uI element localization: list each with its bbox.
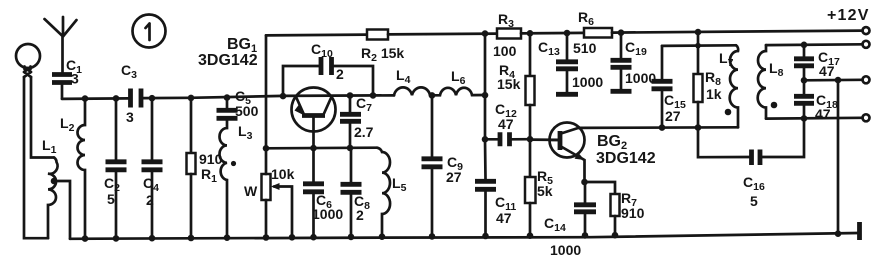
capacitor C11 xyxy=(475,139,516,236)
capacitor C5 xyxy=(217,88,259,119)
node BG2 base xyxy=(527,136,534,143)
wire BG2 collector line xyxy=(579,126,739,129)
resistor R7 xyxy=(585,182,645,236)
svg-text:500: 500 xyxy=(235,103,259,119)
node C7 bottom / C8 top xyxy=(347,145,354,152)
capacitor C13 xyxy=(538,33,603,92)
node L2 top xyxy=(82,95,89,102)
node L8 phasing dot xyxy=(771,102,778,109)
node C2 top xyxy=(113,95,120,102)
resistor R5 xyxy=(525,139,553,236)
node rail wiper xyxy=(289,234,296,241)
wire loop antenna left lead to bottom xyxy=(24,77,48,238)
node rail C9 xyxy=(429,233,436,240)
node BG1 emitter / C10 left xyxy=(280,93,287,100)
transistor BG1 xyxy=(292,88,336,149)
node L1 tap xyxy=(51,178,58,185)
node rail R1 xyxy=(188,235,195,242)
resistor R1 xyxy=(187,98,223,238)
capacitor C17 xyxy=(794,45,840,81)
node ground drop top xyxy=(835,77,842,84)
inductor L8 xyxy=(758,45,784,119)
node C17 bottom / C18 top xyxy=(801,77,808,84)
node rail R3 left xyxy=(482,30,489,37)
node rail C2 xyxy=(113,235,120,242)
capacitor C3 xyxy=(121,62,141,125)
node R1 top xyxy=(188,95,195,102)
node L3 phasing dot xyxy=(231,161,236,166)
capacitor C2 xyxy=(104,98,127,238)
wire tank top line right segment xyxy=(766,43,863,46)
whip antenna xyxy=(45,17,77,72)
svg-text:2.7: 2.7 xyxy=(354,124,374,140)
wire base to BG2 xyxy=(530,138,560,141)
terminal +12V xyxy=(827,7,870,34)
capacitor C6 xyxy=(303,148,343,237)
inductor L7 xyxy=(719,45,738,127)
svg-text:47: 47 xyxy=(819,63,835,79)
svg-text:1k: 1k xyxy=(706,86,722,102)
node C17 top xyxy=(801,42,808,49)
node BG1 base xyxy=(310,145,317,152)
terminal 3 xyxy=(863,76,870,83)
resistor R2 xyxy=(266,30,497,65)
resistor R4 xyxy=(497,33,535,139)
capacitor C16 xyxy=(743,118,804,209)
node rail R8 top xyxy=(695,29,702,36)
svg-text:3: 3 xyxy=(71,71,79,87)
inductor L6 xyxy=(432,68,485,95)
node rail C13 top xyxy=(564,30,571,37)
svg-text:2: 2 xyxy=(146,192,154,208)
wire L1 tap to ground rail start xyxy=(54,181,70,239)
wire bottom ground rail xyxy=(70,233,858,239)
node rail ground drop xyxy=(835,230,842,237)
wire L8 bottom to terminal 4 xyxy=(766,116,863,119)
svg-text:510: 510 xyxy=(573,40,597,56)
node rail L5 xyxy=(379,233,386,240)
svg-text:2: 2 xyxy=(356,207,364,223)
resistor R8 xyxy=(694,32,722,127)
svg-text:3DG142: 3DG142 xyxy=(596,150,656,167)
node rail C14 xyxy=(582,232,589,239)
svg-text:W: W xyxy=(244,183,258,199)
svg-text:910: 910 xyxy=(621,205,645,221)
node rail L2 xyxy=(82,235,89,242)
wire main tank node (top horizontal) xyxy=(62,97,128,100)
node rail C4 xyxy=(149,235,156,242)
node C5 top xyxy=(224,94,231,101)
node C15 bottom xyxy=(659,124,666,131)
node L7 phasing dot xyxy=(725,109,732,116)
node R8 crossing tank line xyxy=(695,43,701,49)
potentiometer W 10k xyxy=(244,148,295,237)
node riser at C12 xyxy=(482,136,489,143)
wire divider mid to terminal 3 xyxy=(804,78,863,81)
inductor L2 xyxy=(60,99,85,239)
node rail R5 xyxy=(527,232,534,239)
node C10 right at collector line xyxy=(370,92,377,99)
svg-text:2: 2 xyxy=(336,66,344,82)
node rail R3 right xyxy=(527,30,534,37)
wire C12/C11 riser from rail xyxy=(484,34,487,140)
node rail C8 xyxy=(348,234,355,241)
wire node after C3 to C12 riser xyxy=(144,95,395,98)
capacitor C10 xyxy=(283,41,373,96)
node R8 bottom xyxy=(695,124,702,131)
svg-text:+12V: +12V xyxy=(827,7,870,24)
resistor R6 xyxy=(573,9,863,56)
svg-text:3DG142: 3DG142 xyxy=(198,52,258,69)
capacitor C18 xyxy=(794,80,838,122)
capacitor C12 xyxy=(485,101,530,146)
transistor BG1 label xyxy=(198,36,258,69)
svg-text:5: 5 xyxy=(750,193,758,209)
wire tank top line left segment xyxy=(662,44,736,47)
svg-text:3: 3 xyxy=(126,109,134,125)
wire ground drop xyxy=(837,80,840,235)
capacitor C15 xyxy=(652,46,686,128)
node rail R7 xyxy=(612,232,619,239)
svg-text:15k: 15k xyxy=(497,76,521,92)
capacitor C14 xyxy=(544,182,596,258)
terminal 4 xyxy=(863,114,870,121)
wire C16 drop and link xyxy=(698,128,750,158)
capacitor C1 xyxy=(52,57,82,99)
svg-text:27: 27 xyxy=(446,169,462,185)
inductor L1 xyxy=(42,137,58,238)
svg-text:27: 27 xyxy=(665,108,681,124)
node emitter xyxy=(581,179,588,186)
node rail C6 xyxy=(310,234,317,241)
inductor L5 xyxy=(377,148,407,237)
node rail C11 xyxy=(482,233,489,240)
wire loop antenna right lead to L1 top xyxy=(31,77,54,158)
wire R3 right to C13 riser xyxy=(521,32,584,35)
inductor L3 xyxy=(220,121,253,238)
svg-text:47: 47 xyxy=(496,210,512,226)
ground bar under C13 xyxy=(556,92,578,97)
transistor BG2 xyxy=(549,123,656,183)
capacitor C4 xyxy=(142,98,163,238)
capacitor C7 xyxy=(340,95,374,148)
svg-text:47: 47 xyxy=(498,116,514,132)
node rail W xyxy=(263,234,270,241)
node rail C19 top xyxy=(618,29,625,36)
loop antenna xyxy=(16,44,40,77)
node C7 top at collector line xyxy=(347,92,354,99)
resistor R3 xyxy=(493,11,521,59)
ground bar under C19 xyxy=(611,89,632,94)
capacitor C8 xyxy=(341,148,371,237)
svg-text:1000: 1000 xyxy=(312,206,343,222)
wire base line xyxy=(266,146,377,149)
svg-text:1000: 1000 xyxy=(572,74,603,90)
svg-text:5: 5 xyxy=(107,191,115,207)
node rail L3 xyxy=(224,234,231,241)
figure marker circled 1 xyxy=(133,15,166,48)
svg-text:5k: 5k xyxy=(537,183,553,199)
node C18 bottom xyxy=(801,115,808,122)
node base line left xyxy=(263,145,270,152)
terminal 2 xyxy=(863,41,870,48)
node collector line meets riser xyxy=(482,92,489,99)
capacitor C19 xyxy=(611,33,657,89)
svg-text:10k: 10k xyxy=(271,166,295,182)
inductor L4 xyxy=(394,67,432,95)
ground stub right end xyxy=(857,222,862,240)
wire R2 riser to base line xyxy=(265,35,268,148)
svg-text:47: 47 xyxy=(815,106,831,122)
svg-text:100: 100 xyxy=(493,43,517,59)
node C9 top xyxy=(429,92,436,99)
svg-text:1000: 1000 xyxy=(550,242,581,258)
node C4 top xyxy=(149,95,156,102)
capacitor C9 xyxy=(422,95,464,236)
